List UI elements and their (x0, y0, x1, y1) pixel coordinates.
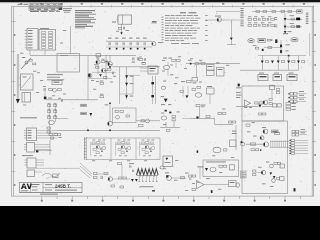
node section-box-B (242, 86, 284, 121)
diode D3 (284, 18, 287, 21)
label small-callouts-mid (96, 57, 99, 60)
junction (190, 63, 192, 65)
wire (171, 177, 186, 179)
label callout2 (253, 44, 257, 47)
op-amp U10 (245, 100, 251, 106)
diode D23 (90, 113, 93, 116)
wire (121, 30, 123, 35)
label mains (116, 30, 119, 33)
resistor R31 (104, 173, 108, 175)
label bottom-callouts (174, 179, 177, 182)
ic U1 (258, 38, 265, 42)
label conn-label (22, 154, 33, 157)
junction (116, 48, 118, 50)
resistor R36 (219, 165, 222, 167)
connector J9 (27, 158, 36, 168)
node osc-cell-q2 (116, 140, 132, 157)
diode D8 (280, 50, 282, 53)
node osc-section-box (86, 138, 160, 160)
label connector-pins-right (306, 12, 309, 15)
label degauss (47, 73, 63, 76)
wire (106, 46, 152, 48)
diode D14 (151, 95, 154, 97)
resistor R52 (251, 149, 254, 151)
node test-point (189, 178, 191, 180)
regulator VR2 (258, 74, 268, 80)
shield-box SH1 (57, 54, 80, 73)
thermistor TH1 (52, 81, 62, 85)
capacitor C25 (145, 58, 146, 61)
wire (152, 76, 154, 104)
resistor R46 (108, 68, 111, 70)
opto U13 (160, 166, 164, 169)
label sheet-note (18, 4, 23, 5)
opto U18 (236, 183, 239, 187)
ground (164, 99, 168, 103)
resistor R17 (180, 90, 183, 92)
diode D6 (275, 39, 277, 43)
node zone-letters-left (11, 21, 15, 23)
label osc-row-callouts (92, 159, 95, 162)
capacitor C20 (101, 176, 102, 179)
diode D28 (196, 116, 198, 118)
capacitor C23 (107, 60, 108, 63)
junction (144, 48, 146, 50)
wire (277, 56, 279, 61)
connector J4 (290, 93, 293, 96)
wire (236, 105, 258, 107)
diode D10 (125, 75, 128, 78)
connector J8 (27, 143, 35, 153)
capacitor C1 (108, 38, 112, 39)
resistor R10 (268, 47, 272, 49)
label notes-list (180, 11, 186, 14)
diode D25 (205, 168, 208, 171)
node osc-cell-q3 (140, 140, 156, 157)
capacitor C3 (122, 38, 126, 39)
resistor R42 (206, 115, 210, 117)
wire (252, 11, 297, 13)
junction (262, 49, 264, 51)
label callout3 (285, 43, 289, 46)
label callout (283, 33, 288, 34)
resistor R14 (195, 63, 199, 65)
diode D27 (165, 110, 167, 112)
node osc-cell-q1 (91, 140, 107, 157)
label mid-callouts (232, 130, 236, 133)
diode D17 (271, 61, 274, 64)
resistor R29 (139, 124, 144, 126)
capacitor C2 (115, 38, 119, 39)
wire (30, 54, 136, 56)
junction (87, 130, 89, 132)
label input-cluster (238, 84, 240, 87)
junction (109, 66, 111, 68)
capacitor C21 (280, 164, 285, 168)
wire (44, 92, 46, 100)
resistor R37 (192, 189, 195, 191)
wire (246, 143, 263, 145)
label centre-density (162, 59, 165, 62)
ic U6 (217, 68, 225, 77)
resistor R39 (172, 115, 175, 117)
transistor Q3 (88, 74, 92, 78)
diode D24 (131, 179, 134, 182)
capacitor C13 (133, 57, 134, 60)
label notes-numbers (162, 16, 164, 19)
label logo (21, 184, 32, 189)
ic U3 (148, 66, 158, 74)
fuse F1 (152, 21, 157, 22)
transistor Q15 (272, 179, 276, 183)
resistor R49 (142, 62, 145, 64)
label part-callouts (274, 16, 277, 19)
opto U9 (161, 86, 165, 89)
wire (287, 18, 303, 20)
transistor Q9 (108, 121, 113, 126)
junction (137, 48, 139, 50)
diode D12 (125, 95, 128, 98)
resistor R7 (291, 26, 294, 28)
resistor R22 (275, 132, 280, 134)
relay K1 (248, 39, 254, 43)
resistor R9 (255, 47, 258, 49)
wire fan (80, 163, 92, 174)
resistor R47 (104, 76, 107, 78)
resistor R1 (256, 11, 260, 13)
transistor Q16 (96, 60, 100, 64)
diode D7 (280, 45, 282, 48)
resistor R34 (181, 177, 185, 179)
resistor R20 (269, 98, 272, 100)
label left-density (52, 94, 55, 97)
transistor Q10 (116, 115, 120, 119)
resistor R24 (259, 113, 262, 115)
connector J1 (27, 29, 38, 51)
opto U14 (210, 167, 216, 172)
diode D18 (277, 61, 280, 64)
wire (121, 24, 123, 27)
capacitor-bank (48, 105, 51, 107)
transistor Q4 (108, 62, 113, 67)
ic U5 (207, 65, 215, 71)
diode D21 (258, 105, 261, 108)
capacitor C15 (192, 88, 196, 90)
wire (109, 55, 111, 61)
capacitor C18 (47, 127, 50, 129)
resistor R18 (255, 102, 259, 104)
wire (257, 172, 262, 174)
relay K2 (21, 74, 34, 90)
resistor R2 (263, 11, 267, 13)
node pin-fan (138, 176, 140, 181)
label power-label (20, 117, 37, 118)
wire (87, 55, 89, 100)
wire (16, 54, 18, 99)
varistor RV1 (53, 88, 57, 92)
wire (126, 67, 128, 99)
capacitor C19 (118, 163, 122, 165)
wire (271, 90, 273, 98)
wire (280, 40, 282, 54)
ic U2 (291, 38, 298, 42)
diode D29 (99, 74, 102, 77)
ground (16, 99, 20, 104)
resistor R44 (102, 61, 105, 63)
connector strip-left (83, 137, 85, 160)
wire (132, 75, 134, 94)
transistor Q18 (260, 136, 264, 140)
capacitor C12 (44, 88, 45, 91)
node section-box-A (242, 121, 288, 194)
resistor R13 (100, 96, 104, 98)
label cluster-callouts (161, 103, 165, 106)
bus ribbon (270, 140, 289, 142)
label v-out2 (290, 22, 295, 25)
wire (205, 19, 240, 21)
transformer T1 (118, 15, 132, 24)
inductor FL1 (297, 10, 303, 13)
wire (214, 118, 216, 124)
wire (199, 107, 201, 118)
junction (197, 150, 199, 152)
resistor R33 (111, 185, 114, 187)
node bottom-ruler (41, 196, 43, 199)
wire (167, 70, 169, 76)
resistor R11 (96, 54, 101, 57)
transistor Q1 (152, 42, 156, 46)
capacitor C16 (276, 88, 279, 90)
node zone-letters-right (312, 21, 316, 23)
resistor R28 (141, 120, 145, 122)
potentiometer VR1 (192, 78, 198, 82)
capacitor C1 (119, 27, 122, 29)
transistor Q13 (261, 170, 265, 174)
speaker SP1 (213, 147, 221, 153)
label bc-callouts (163, 167, 166, 170)
diode D9 (44, 97, 47, 100)
label j5-callouts (301, 128, 306, 131)
node section-box-C (113, 108, 137, 123)
diode D19 (287, 61, 290, 64)
connector J7 (27, 128, 37, 141)
junction (294, 188, 296, 191)
resistor R32 (119, 177, 122, 179)
label net-label1 (81, 104, 87, 106)
capacitor C26 (62, 99, 63, 102)
transformer T3 (137, 169, 159, 175)
diode D20 (297, 61, 300, 64)
capacitor C5 (136, 38, 140, 39)
label tick-note (152, 190, 155, 192)
capacitor C24 (113, 72, 114, 75)
diode D15 (185, 95, 188, 98)
wire (284, 14, 286, 31)
transistor Q6 (263, 100, 268, 105)
wire (196, 65, 198, 78)
label left-top-callouts (63, 29, 66, 32)
svg-text:245B T.: 245B T. (55, 183, 71, 188)
resistor R12 (100, 82, 104, 84)
resistor R15 (201, 63, 205, 65)
wire (49, 140, 51, 155)
node pencil-note (42, 173, 60, 177)
regulator VR4 (287, 74, 297, 80)
wire (258, 55, 306, 57)
mic MK1 (241, 143, 245, 146)
node section-box-D (203, 160, 239, 177)
wire (186, 63, 240, 65)
junction (123, 48, 125, 50)
ic U8 (207, 88, 215, 94)
capacitor C14 (137, 57, 138, 60)
wire (136, 120, 160, 122)
wire (112, 66, 160, 68)
resistor R21 (269, 102, 272, 104)
capacitor C4 (129, 38, 133, 39)
label rn-header (40, 27, 49, 30)
node scanner-edge (0, 0, 320, 2)
label tr-callouts (244, 106, 247, 109)
label box-a-callouts (258, 166, 262, 169)
diode D5 (284, 31, 287, 34)
connector J6 (291, 139, 294, 141)
wire (136, 120, 146, 122)
label revision-table (29, 4, 62, 8)
resistor R40 (167, 129, 170, 131)
wire (261, 63, 263, 70)
resistor-network RN1 (39, 30, 56, 51)
label doc-number (30, 10, 39, 13)
opto U7 (195, 93, 201, 97)
resistor R3 (272, 11, 276, 13)
regulator VR3 (273, 74, 282, 80)
capacitor C22 (58, 134, 61, 136)
wire (97, 55, 99, 74)
node top-ruler (30, 5, 32, 7)
resistor R48 (139, 58, 142, 60)
node sheet-frame (11, 7, 313, 197)
power +5V (109, 102, 111, 104)
wire (199, 168, 201, 179)
ic U12 (163, 156, 173, 167)
resistor R35 (189, 175, 192, 177)
diode D22 (36, 150, 38, 152)
wire main-bus (57, 129, 160, 131)
node title-block (20, 183, 83, 193)
diode D26 (270, 172, 273, 175)
wire (216, 11, 240, 13)
diode D13 (151, 82, 154, 84)
wire (106, 40, 152, 42)
resistor R19 (259, 102, 263, 104)
wire (231, 40, 233, 44)
label approval-table (29, 8, 58, 10)
node title-strip (20, 192, 83, 194)
transistor Q17 (102, 69, 106, 73)
wire (309, 33, 311, 56)
label net-label2 (81, 112, 87, 114)
junction (130, 48, 132, 50)
opto U4 (164, 65, 170, 69)
label flyback-label (140, 185, 154, 188)
wire (70, 26, 72, 54)
resistor R45 (96, 66, 99, 68)
transistor Q2 (217, 18, 221, 22)
transformer T2 (22, 93, 31, 103)
opto U20 (161, 116, 167, 120)
resistor R38 (253, 170, 256, 172)
label parts-list (75, 9, 95, 12)
ic U19 (280, 177, 285, 181)
ic U15 (230, 165, 235, 170)
resistor R23 (251, 143, 256, 145)
opto U11 (49, 121, 55, 125)
label v-out1 (290, 14, 295, 17)
wire (264, 47, 281, 49)
transistor Q14 (270, 164, 274, 168)
label pin-list (240, 7, 243, 10)
delay-line DL1 (272, 130, 279, 133)
resistor R4 (281, 11, 285, 13)
capacitor C8 (296, 18, 300, 21)
switch SW1 (21, 58, 31, 69)
label title-cell2 (32, 184, 40, 185)
wire (236, 105, 245, 107)
ic U17 (229, 181, 237, 187)
diode D16 (261, 61, 264, 64)
diode D4 (284, 26, 287, 29)
wire (261, 56, 263, 61)
label input-labels (241, 171, 247, 178)
op-amp U16 (197, 181, 205, 189)
transistor Q8 (264, 142, 269, 147)
resistor R5 (288, 11, 292, 13)
resistor R26 (115, 111, 118, 113)
node rc-row (248, 15, 251, 18)
wire (231, 20, 233, 37)
capacitor C9 (296, 25, 300, 28)
capacitor C6 (143, 38, 147, 39)
wire (288, 56, 290, 61)
wire (97, 173, 108, 175)
resistor R30 (94, 173, 98, 175)
label pin-callouts (286, 103, 291, 105)
resistor R43 (229, 121, 232, 123)
junction (211, 190, 213, 193)
resistor R16 (187, 80, 192, 82)
wire (204, 184, 229, 186)
wire (165, 122, 167, 127)
junction (288, 55, 290, 57)
transistor Q11 (108, 177, 112, 181)
label sw-callouts (94, 63, 97, 66)
wire (57, 118, 68, 120)
label lm-callouts (37, 71, 40, 74)
connector J10 (27, 170, 35, 177)
label section-label (198, 166, 204, 167)
resistor R51 (246, 124, 250, 126)
connector J5 (292, 130, 295, 133)
resistor R27 (126, 115, 129, 117)
diode D11 (125, 83, 128, 86)
label top-mid-callouts (188, 59, 192, 62)
diode D2 (230, 38, 233, 41)
resistor R8 (267, 39, 270, 41)
resistor R6 (291, 18, 294, 20)
ic U21 (230, 140, 237, 147)
crystal Y1 (270, 85, 275, 89)
